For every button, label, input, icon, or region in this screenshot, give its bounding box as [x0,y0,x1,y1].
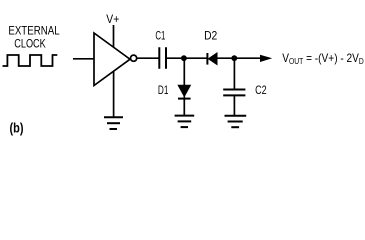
svg-text:D2: D2 [204,29,217,42]
svg-text:CLOCK: CLOCK [14,37,46,51]
svg-text:EXTERNAL: EXTERNAL [8,23,60,37]
wire node to C2 [233,58,235,89]
ground under inverter [104,117,123,129]
wire inverter to ground [113,71,115,117]
svg-text:D1: D1 [158,84,169,97]
wire C2 to ground [233,96,235,117]
wire input [73,58,94,60]
svg-text:(b): (b) [10,119,24,135]
svg-text:C1: C1 [155,29,165,42]
node junction dot 2 [231,55,237,61]
ground under C2 [225,116,247,128]
svg-text:V+: V+ [106,13,119,26]
wire C1 to D2 [167,57,207,59]
wire node to D1 [183,58,185,86]
wire D2 to arrow [217,57,261,59]
node junction dot 1 [181,55,187,61]
inverter U1 [94,33,130,86]
output arrow [260,55,272,62]
clock waveform [3,55,58,66]
wire inverter output to C1 [137,57,159,59]
svg-text:C2: C2 [255,84,267,97]
ground under D1 [175,116,195,128]
wire D1 to ground [183,96,185,115]
